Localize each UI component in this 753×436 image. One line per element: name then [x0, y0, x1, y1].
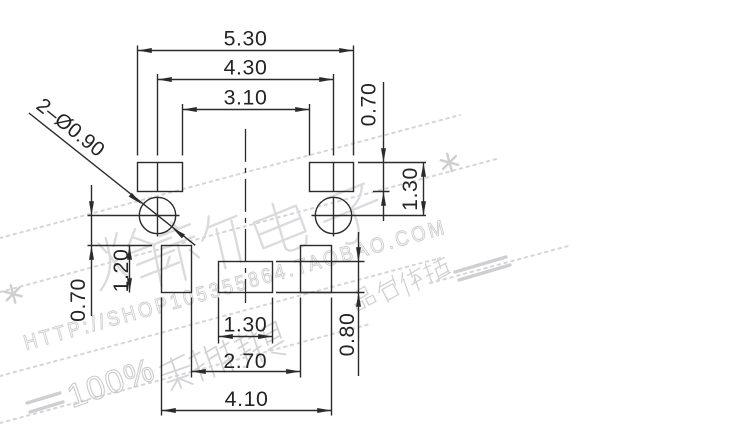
svg-text:1.30: 1.30: [398, 167, 422, 211]
svg-text:1.30: 1.30: [223, 312, 267, 336]
svg-text:1.20: 1.20: [109, 249, 133, 293]
svg-text:0.80: 0.80: [335, 313, 359, 357]
svg-text:0.70: 0.70: [66, 278, 90, 322]
svg-text:0.70: 0.70: [356, 83, 380, 127]
svg-text:4.10: 4.10: [225, 387, 269, 411]
svg-text:3.10: 3.10: [224, 85, 268, 109]
svg-text:2.70: 2.70: [223, 349, 267, 373]
svg-text:5.30: 5.30: [224, 26, 268, 50]
svg-text:4.30: 4.30: [224, 55, 268, 79]
